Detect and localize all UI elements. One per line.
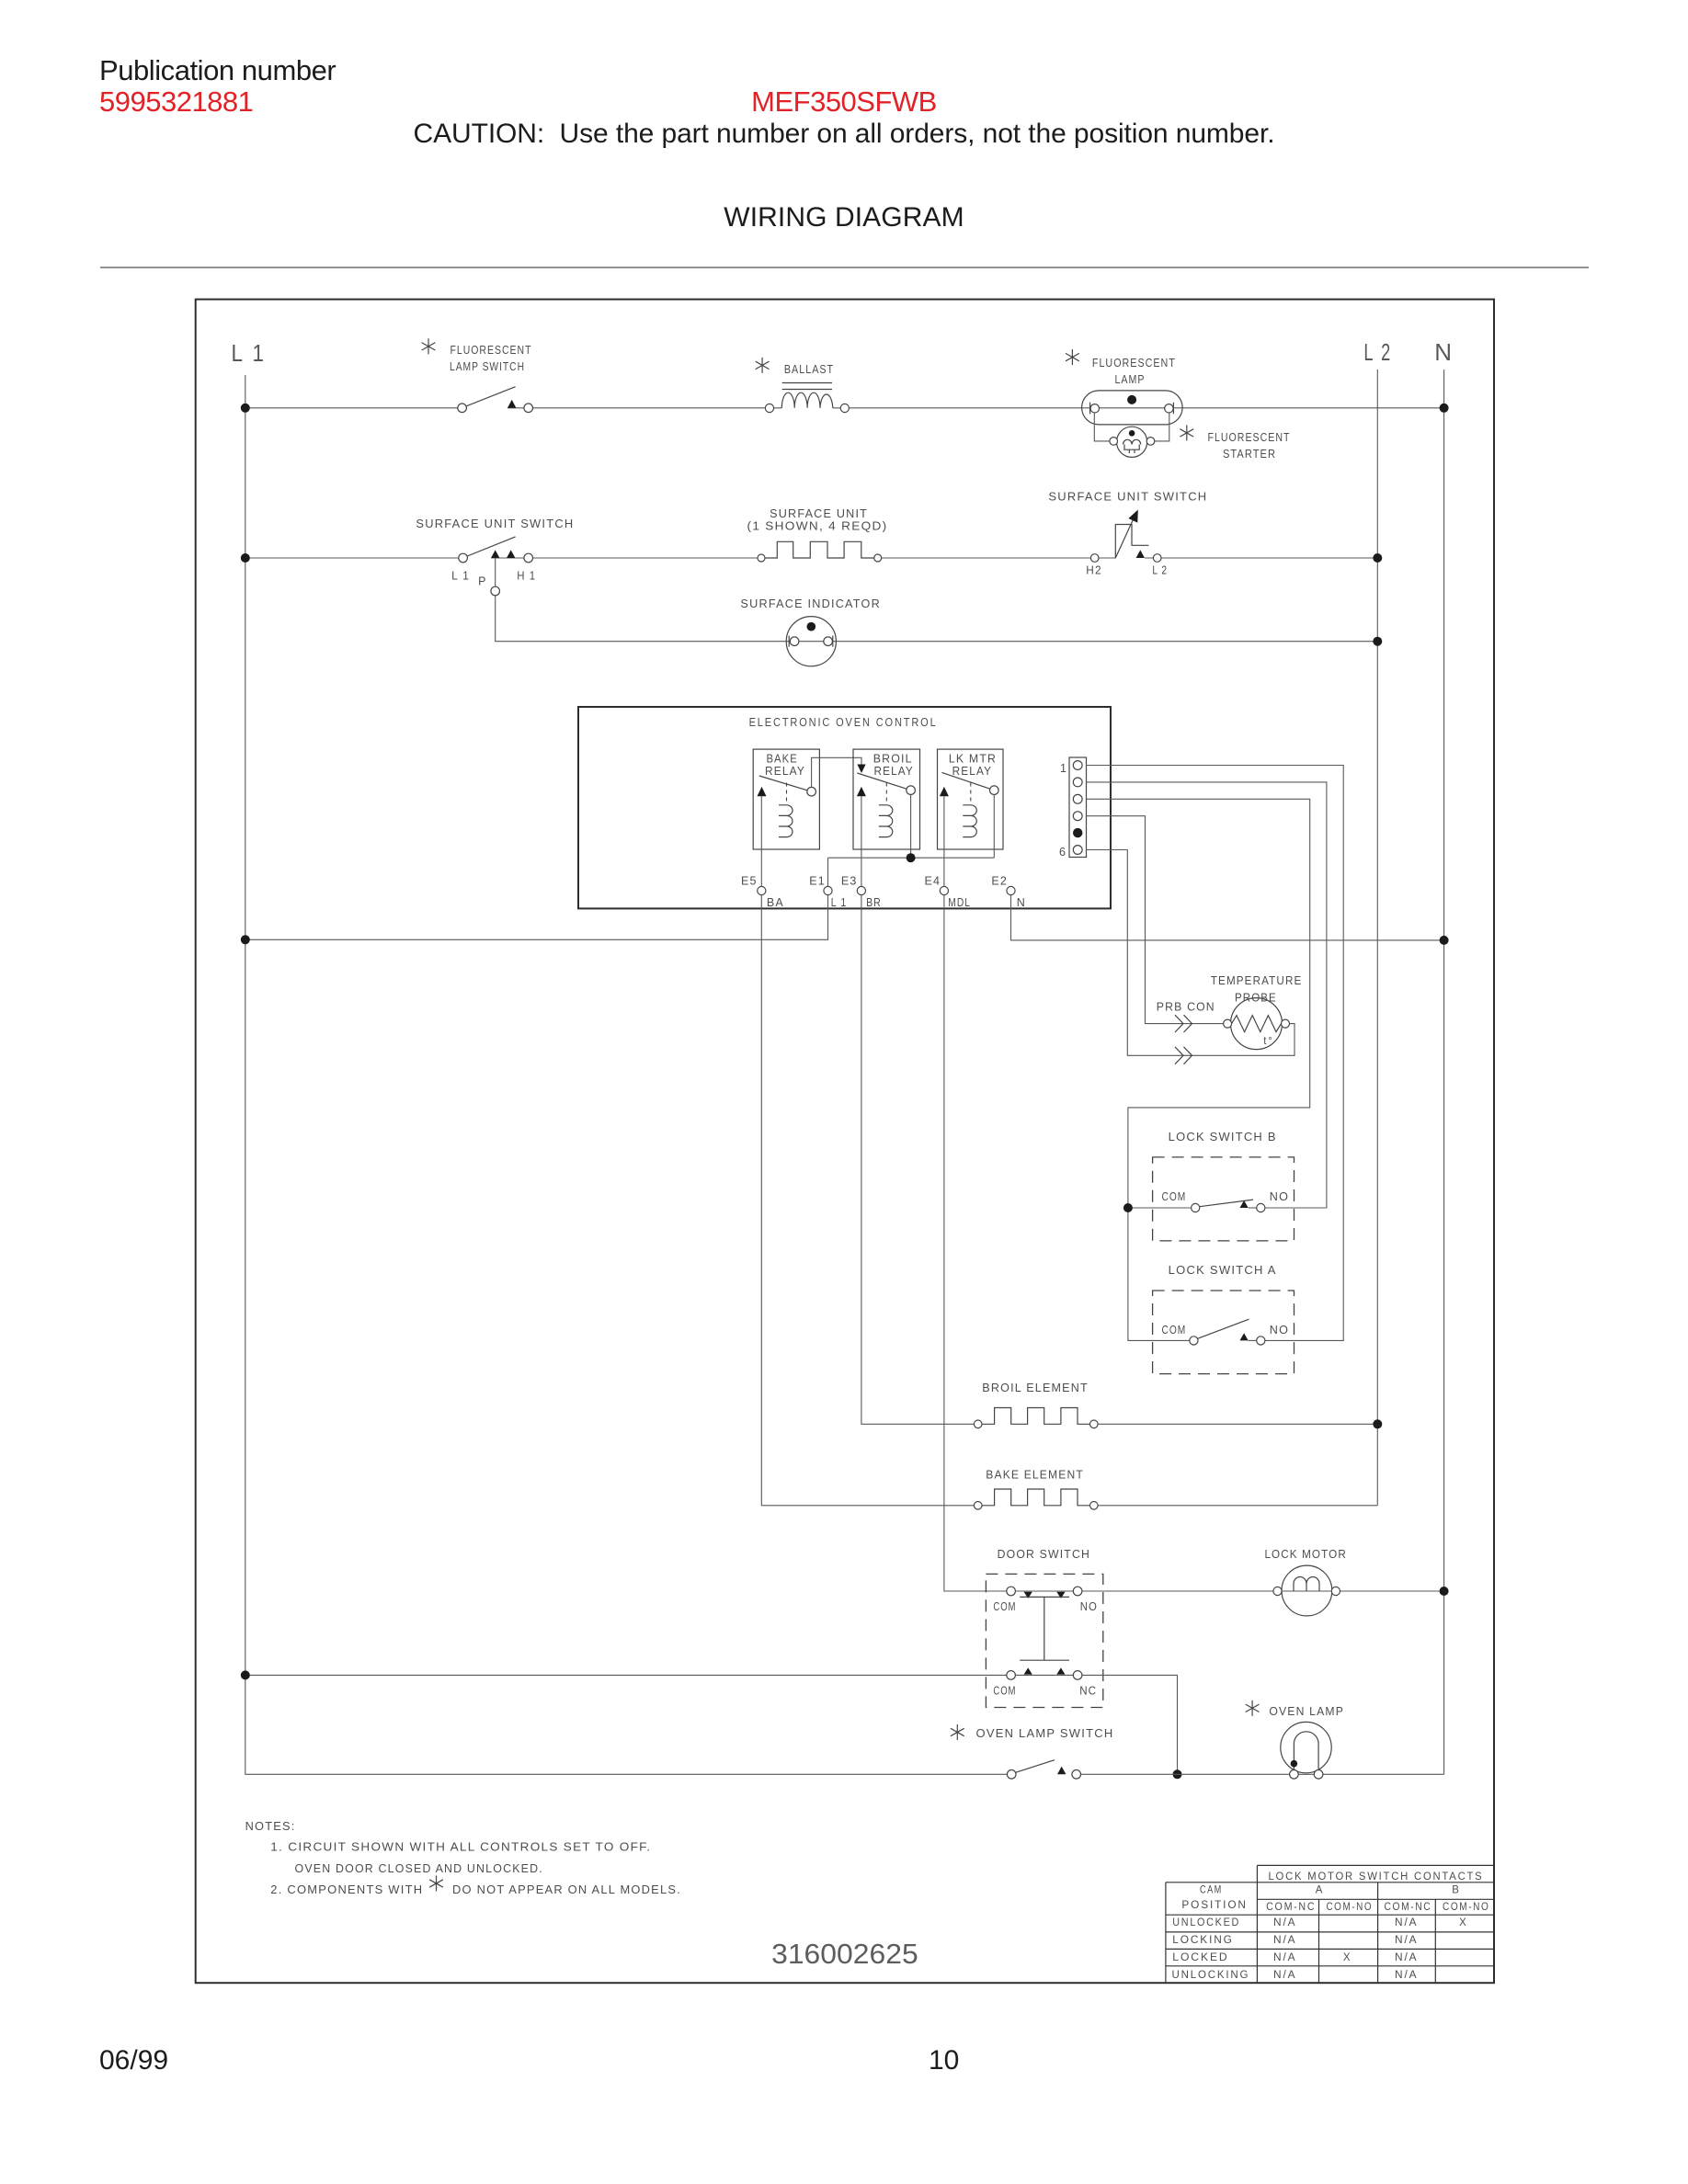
svg-text:STARTER: STARTER	[1223, 448, 1276, 461]
svg-text:BROIL: BROIL	[873, 753, 913, 766]
oven lamp switch	[1007, 1760, 1080, 1779]
asterisk for oven lamp switch	[951, 1724, 964, 1740]
svg-text:L 2: L 2	[1363, 338, 1392, 366]
surface indicator	[786, 617, 836, 666]
svg-text:COM: COM	[993, 1600, 1016, 1613]
junction dot N lock motor	[1440, 1587, 1449, 1596]
wire row2 L2 contact to L2 bus	[1145, 557, 1377, 559]
svg-text:L 1: L 1	[451, 570, 470, 583]
lock motor switch contacts table	[1166, 1865, 1494, 1983]
wire MDL to door switch	[944, 895, 1007, 1591]
lock motor relay U3	[938, 749, 1004, 849]
terminal E5	[758, 886, 766, 894]
wire door NO to lock motor	[1082, 1590, 1444, 1592]
wire L2 bus	[1376, 370, 1378, 1506]
svg-text:LOCKED: LOCKED	[1172, 1952, 1228, 1963]
wire lk common down	[993, 795, 995, 859]
wire row1 L1 to lamp switch	[245, 407, 458, 409]
svg-text:N: N	[1017, 896, 1026, 909]
svg-text:RELAY: RELAY	[873, 765, 914, 778]
junction dot L1 E1 row	[241, 935, 250, 944]
junction dot N E2 row	[1440, 936, 1449, 945]
svg-text:BAKE: BAKE	[766, 753, 798, 766]
svg-text:RELAY: RELAY	[952, 765, 993, 778]
wire BR to broil element	[861, 895, 975, 1425]
electronic oven control box	[578, 707, 1111, 908]
svg-text:LAMP SWITCH: LAMP SWITCH	[450, 360, 525, 373]
svg-text:H2: H2	[1086, 564, 1101, 577]
wire E1 to L1 bus	[245, 895, 828, 940]
svg-text:316002625: 316002625	[771, 1938, 918, 1970]
wire BA to bake element	[761, 895, 974, 1506]
svg-text:N/A: N/A	[1273, 1935, 1296, 1946]
wire row2 L1 to surface unit switch	[245, 557, 459, 559]
asterisk for fluorescent starter	[1180, 425, 1193, 440]
junction dot lock switch B com	[1123, 1203, 1133, 1212]
wire row2 switch to surface unit	[491, 557, 758, 559]
svg-text:NO: NO	[1270, 1324, 1289, 1337]
svg-text:UNLOCKED: UNLOCKED	[1172, 1917, 1240, 1928]
svg-text:BR: BR	[866, 896, 882, 909]
svg-text:SURFACE INDICATOR: SURFACE INDICATOR	[740, 597, 881, 610]
svg-text:E5: E5	[741, 875, 758, 888]
wire E1 bus bar	[828, 857, 995, 859]
diagram border frame	[196, 300, 1494, 1984]
svg-text:LOCK MOTOR SWITCH CONTACTS: LOCK MOTOR SWITCH CONTACTS	[1269, 1871, 1484, 1883]
svg-text:COM: COM	[993, 1685, 1016, 1698]
wire oven lamp switch to N	[1081, 1773, 1444, 1775]
wire row3 indicator to L2	[794, 641, 1377, 643]
wire E5 lead	[760, 796, 762, 886]
svg-text:N/A: N/A	[1395, 1952, 1418, 1963]
svg-text:POSITION: POSITION	[1181, 1900, 1247, 1911]
bake relay U1	[753, 749, 819, 849]
junction dot L1 row2	[241, 553, 250, 563]
svg-text:DO NOT APPEAR ON ALL MODELS.: DO NOT APPEAR ON ALL MODELS.	[452, 1883, 681, 1896]
broil relay U2	[853, 749, 920, 849]
asterisk for oven lamp	[1246, 1701, 1260, 1716]
svg-text:P: P	[478, 574, 487, 587]
svg-text:LK MTR: LK MTR	[949, 753, 997, 766]
svg-text:SURFACE UNIT: SURFACE UNIT	[770, 507, 868, 520]
svg-text:ELECTRONIC OVEN CONTROL: ELECTRONIC OVEN CONTROL	[749, 715, 938, 729]
wire E4 lead	[943, 796, 945, 886]
svg-text:L 1: L 1	[831, 896, 848, 909]
svg-text:2. COMPONENTS WITH: 2. COMPONENTS WITH	[270, 1883, 423, 1896]
svg-text:X: X	[1343, 1952, 1352, 1963]
svg-text:X: X	[1459, 1917, 1467, 1928]
svg-text:CAM: CAM	[1200, 1885, 1223, 1896]
svg-text:t°: t°	[1263, 1036, 1273, 1047]
svg-text:FLUORESCENT: FLUORESCENT	[451, 344, 532, 357]
svg-text:L 2: L 2	[1152, 564, 1168, 577]
svg-text:OVEN LAMP: OVEN LAMP	[1269, 1705, 1344, 1718]
svg-text:DOOR SWITCH: DOOR SWITCH	[998, 1548, 1090, 1561]
junction dot L1 row1	[241, 404, 250, 413]
svg-text:N/A: N/A	[1395, 1935, 1418, 1946]
broil element	[974, 1408, 1098, 1428]
probe connector chevrons	[1175, 1015, 1192, 1032]
terminal E2	[1007, 886, 1015, 894]
junction dot N row1	[1440, 404, 1449, 413]
wire E2 to N bus	[1011, 895, 1444, 940]
bake element	[974, 1489, 1098, 1509]
svg-text:N/A: N/A	[1273, 1952, 1296, 1963]
wire broil common to bus bar	[910, 795, 912, 859]
svg-text:MDL: MDL	[948, 896, 971, 909]
svg-text:SURFACE UNIT SWITCH: SURFACE UNIT SWITCH	[1048, 491, 1207, 504]
svg-text:E4: E4	[925, 875, 941, 888]
svg-text:E2: E2	[991, 875, 1008, 888]
fluorescent starter	[1094, 413, 1169, 457]
svg-text:OVEN DOOR CLOSED AND UNLOCKED.: OVEN DOOR CLOSED AND UNLOCKED.	[295, 1862, 543, 1875]
svg-text:NC: NC	[1079, 1685, 1097, 1698]
svg-text:LOCKING: LOCKING	[1172, 1935, 1234, 1946]
terminal E3	[857, 886, 865, 894]
wire pin3 to lock switch commons	[1087, 799, 1310, 1340]
wire pin2 to lock switch B NO	[1087, 782, 1327, 1208]
svg-text:OVEN LAMP SWITCH: OVEN LAMP SWITCH	[976, 1727, 1114, 1740]
svg-text:(1 SHOWN, 4 REQD): (1 SHOWN, 4 REQD)	[747, 520, 888, 533]
lock switch A	[1153, 1291, 1295, 1374]
svg-text:SURFACE UNIT SWITCH: SURFACE UNIT SWITCH	[416, 518, 574, 530]
svg-text:FLUORESCENT: FLUORESCENT	[1208, 431, 1291, 444]
svg-text:LOCK SWITCH B: LOCK SWITCH B	[1169, 1131, 1277, 1143]
wire bake common to broil pivot	[812, 757, 861, 787]
wire N bus	[1443, 370, 1445, 1774]
junction dot L2 broil element	[1373, 1419, 1382, 1428]
svg-text:1. CIRCUIT SHOWN WITH ALL CON: 1. CIRCUIT SHOWN WITH ALL CONTROLS SET T…	[270, 1841, 651, 1854]
svg-text:N/A: N/A	[1273, 1917, 1296, 1928]
lock switch B	[1153, 1157, 1295, 1241]
svg-text:COM-NC: COM-NC	[1385, 1902, 1432, 1913]
terminal P circle	[491, 586, 500, 596]
svg-text:BROIL ELEMENT: BROIL ELEMENT	[982, 1382, 1089, 1394]
wire pin6 to probe connector	[1087, 850, 1295, 1056]
terminal E4	[940, 886, 948, 894]
svg-text:RELAY: RELAY	[765, 765, 805, 778]
surface unit switch left	[459, 537, 533, 563]
svg-text:E3: E3	[841, 875, 858, 888]
svg-text:N/A: N/A	[1395, 1917, 1418, 1928]
svg-text:TEMPERATURE: TEMPERATURE	[1211, 974, 1303, 987]
wire E1 lead	[827, 858, 829, 886]
svg-text:BA: BA	[767, 896, 784, 909]
junction dot broil common	[907, 853, 916, 862]
wire broil element to L2	[1098, 1423, 1377, 1425]
wire row1 ballast to N	[833, 407, 1444, 409]
svg-text:H 1: H 1	[517, 570, 536, 583]
svg-text:NO: NO	[1270, 1190, 1289, 1203]
connector J1	[1069, 757, 1087, 858]
svg-text:N/A: N/A	[1273, 1970, 1296, 1981]
wire door NC to oven lamp row	[1082, 1675, 1178, 1774]
lock motor M1	[1273, 1565, 1340, 1616]
wire row1 switch to ballast	[508, 407, 781, 409]
junction dot L1 door row	[241, 1670, 250, 1679]
fluorescent lamp switch	[458, 387, 533, 413]
svg-text:PRB CON: PRB CON	[1157, 1001, 1215, 1014]
svg-text:L 1: L 1	[232, 339, 267, 367]
svg-text:1: 1	[1060, 762, 1067, 775]
svg-text:COM: COM	[1162, 1190, 1187, 1203]
footer	[99, 2045, 168, 2076]
wire E3 lead	[861, 796, 862, 886]
asterisk for fluorescent lamp switch	[422, 338, 436, 354]
ballast L1	[765, 383, 849, 413]
svg-text:E1: E1	[809, 875, 826, 888]
svg-text:LAMP: LAMP	[1115, 373, 1146, 386]
svg-text:LOCK SWITCH A: LOCK SWITCH A	[1169, 1264, 1277, 1277]
wire P branch	[496, 558, 791, 642]
temperature probe RT1	[1224, 998, 1290, 1050]
terminal E1	[824, 886, 832, 894]
fluorescent lamp	[1082, 391, 1183, 425]
surface unit element	[758, 541, 882, 562]
junction dot L2 row2	[1373, 553, 1382, 563]
asterisk in note 2	[429, 1876, 443, 1892]
asterisk for fluorescent lamp	[1066, 349, 1079, 365]
svg-text:PROBE: PROBE	[1235, 992, 1277, 1005]
svg-text:LOCK MOTOR: LOCK MOTOR	[1264, 1548, 1347, 1561]
svg-text:B: B	[1452, 1885, 1460, 1896]
svg-text:FLUORESCENT: FLUORESCENT	[1092, 357, 1176, 370]
svg-text:BAKE ELEMENT: BAKE ELEMENT	[986, 1469, 1084, 1482]
wire L1 bus	[245, 375, 1008, 1774]
junction dot L2 row3	[1373, 637, 1382, 646]
svg-text:NOTES:: NOTES:	[245, 1820, 296, 1833]
svg-text:NO: NO	[1080, 1600, 1098, 1613]
svg-text:COM: COM	[1162, 1324, 1187, 1337]
header: publication number block	[99, 54, 336, 87]
horizontal rule under title	[100, 267, 1589, 268]
svg-text:N: N	[1434, 338, 1454, 366]
door switch S1	[245, 1574, 1103, 1707]
svg-text:A: A	[1316, 1885, 1324, 1896]
svg-text:UNLOCKING: UNLOCKING	[1172, 1970, 1250, 1981]
svg-text:COM-NC: COM-NC	[1266, 1902, 1316, 1913]
surface unit switch right	[1090, 510, 1161, 563]
wire row2 surface unit to H2	[882, 557, 1116, 559]
svg-text:COM-NO: COM-NO	[1443, 1902, 1489, 1913]
wire bake element to L2	[1098, 1505, 1377, 1507]
asterisk for ballast	[756, 358, 770, 373]
wire pin1 to lock switch A NO	[1087, 766, 1344, 1341]
oven lamp	[1281, 1722, 1331, 1779]
svg-text:BALLAST: BALLAST	[784, 363, 834, 376]
svg-text:COM-NO: COM-NO	[1326, 1902, 1373, 1913]
svg-text:N/A: N/A	[1395, 1970, 1418, 1981]
svg-text:6: 6	[1059, 846, 1066, 859]
wire pin4 to probe connector	[1087, 816, 1224, 1024]
junction dot oven lamp row	[1173, 1769, 1182, 1779]
